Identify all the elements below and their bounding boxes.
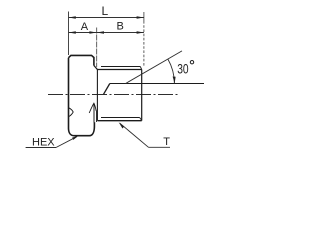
HEX leader arrow bbox=[72, 136, 79, 140]
svg-text:L: L bbox=[102, 4, 109, 18]
hex chamfer arcs lower (lambda) bbox=[89, 103, 96, 113]
seat cone edge diagonal bbox=[104, 84, 110, 95]
seat line / angle reference line bbox=[110, 83, 204, 85]
angle arrow bbox=[173, 77, 176, 84]
thread bottom crest line bbox=[97, 120, 141, 122]
arrow A left bbox=[69, 31, 76, 33]
svg-text:T: T bbox=[163, 136, 170, 148]
hex body outline bbox=[69, 55, 95, 135]
thread bottom root line bbox=[101, 117, 140, 119]
extension line right bbox=[143, 12, 145, 21]
thread end top chamfer bbox=[140, 67, 141, 70]
hex face short line bbox=[96, 111, 98, 123]
arrow L left bbox=[69, 16, 76, 18]
degree symbol bbox=[190, 61, 193, 64]
arrow A right bbox=[89, 31, 96, 33]
angle arc bbox=[168, 59, 175, 83]
extension line mid (A/B boundary) bbox=[96, 28, 98, 68]
T leader diagonal bbox=[120, 123, 149, 147]
extension line left bbox=[68, 12, 70, 56]
HEX leader diagonal bbox=[56, 137, 77, 148]
dimension line A bbox=[69, 32, 97, 34]
hex corner line lower bbox=[93, 103, 95, 122]
dimension line L bbox=[69, 17, 144, 19]
svg-text:A: A bbox=[81, 21, 89, 33]
hex left edge notch arcs bbox=[69, 108, 73, 117]
end face bbox=[141, 70, 143, 121]
dimension line B bbox=[97, 32, 144, 34]
thread top crest line bbox=[101, 66, 140, 68]
T leader arrow bbox=[119, 122, 125, 128]
arrow B left bbox=[97, 31, 104, 33]
T leader underline bbox=[149, 146, 171, 148]
svg-text:HEX: HEX bbox=[32, 136, 55, 148]
arrow L right bbox=[137, 16, 144, 18]
hex-thread boundary bbox=[96, 70, 98, 121]
thread top root line bbox=[97, 69, 141, 71]
centerline bbox=[48, 94, 180, 96]
thread start chamfer bbox=[94, 66, 98, 70]
arrow B right bbox=[137, 31, 144, 33]
thread end bottom chamfer bbox=[140, 118, 142, 121]
30 degree line bbox=[126, 51, 182, 84]
svg-text:B: B bbox=[117, 21, 124, 33]
svg-text:30: 30 bbox=[177, 61, 189, 77]
HEX leader underline bbox=[26, 147, 56, 149]
